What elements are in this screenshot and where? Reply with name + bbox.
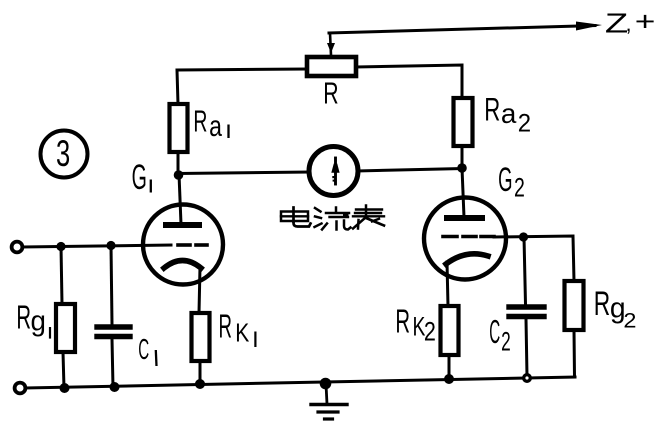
wire C1 top lead: [111, 245, 112, 324]
svg-text:3: 3: [56, 132, 70, 174]
wire RK2 bottom lead: [448, 355, 451, 379]
表: [356, 208, 382, 210]
wire G2 cathode lead: [447, 262, 448, 306]
wire Ra2 bottom: [461, 146, 464, 168]
svg-text:R: R: [193, 105, 207, 138]
电: [281, 212, 308, 222]
svg-text:K: K: [235, 319, 249, 348]
svg-text:R: R: [219, 308, 232, 345]
svg-text:2: 2: [623, 308, 636, 332]
label 电流表 ammeter caption hand-drawn glyphs: [281, 206, 384, 230]
wire C2 top lead: [524, 237, 526, 304]
capacitor C2 bottom plate: [509, 314, 544, 319]
svg-text:R: R: [484, 91, 500, 127]
wire anode rail left G1 to ammeter: [178, 172, 310, 174]
svg-text:R: R: [395, 302, 410, 339]
resistor Rg1: [56, 304, 75, 352]
node bottom rail RK1: [195, 379, 205, 389]
tube G2 cathode: [446, 254, 488, 264]
node bottom rail RK2: [444, 374, 454, 384]
resistor RK1: [192, 313, 210, 361]
node G2 grid: [519, 232, 528, 241]
svg-text:2: 2: [424, 317, 436, 347]
node bottom rail Rg1: [60, 383, 70, 393]
wire potentiometer wiper: [330, 33, 331, 55]
svg-text:R: R: [594, 286, 610, 324]
ammeter needle: [334, 158, 337, 184]
capacitor C1 top plate: [97, 324, 130, 329]
wire G1 plate lead: [179, 174, 181, 224]
svg-text:R: R: [323, 76, 338, 111]
node Z,+ arrowhead: [576, 22, 602, 31]
wire Rg1 bottom lead: [63, 352, 64, 388]
svg-text:g: g: [31, 305, 46, 336]
resistor RK2: [441, 306, 459, 355]
wire G2 plate lead: [462, 168, 464, 217]
wiper arrowhead: [327, 43, 335, 53]
node G1 anode: [174, 170, 184, 180]
svg-text:,: ,: [626, 11, 632, 36]
tube G1 cathode: [164, 261, 201, 269]
wire Rg1 top lead: [61, 246, 62, 304]
svg-text:a: a: [501, 98, 517, 129]
potentiometer R: [307, 57, 356, 76]
wire C1 bottom lead: [112, 339, 113, 387]
tube G1 envelope: [143, 205, 223, 285]
wire bottom rail: [25, 377, 575, 388]
tube G2 grid dashes: [443, 235, 457, 239]
svg-text:C: C: [489, 315, 500, 351]
tube G1 grid dashes: [178, 243, 190, 247]
流: [315, 208, 321, 212]
node G2 anode: [457, 163, 467, 173]
tube G2 envelope: [424, 198, 506, 280]
node grid rail dot 1: [56, 242, 65, 251]
node grid rail dot 2: [106, 241, 115, 250]
tube G2 plate: [447, 215, 482, 221]
svg-text:G: G: [498, 160, 512, 199]
wire top rail to output Z,+: [329, 26, 595, 34]
wire C2 bottom lead: [526, 319, 527, 376]
ammeter body: [309, 147, 358, 196]
svg-text:2: 2: [514, 172, 525, 202]
tube G1 plate: [166, 222, 199, 228]
ground: [326, 384, 327, 404]
resistor Ra2: [454, 98, 473, 146]
capacitor C2 top plate: [509, 304, 544, 309]
wire Ra1 bottom: [177, 152, 180, 174]
wire G2 grid lead to Rg2: [494, 236, 574, 281]
capacitor C1 bottom plate: [97, 334, 130, 339]
wire pot left to Ra1 top: [177, 69, 307, 104]
figure number 3 circle: [41, 131, 88, 178]
wire G1 grid lead: [22, 245, 171, 247]
wire Rg2 bottom lead: [573, 330, 577, 377]
svg-text:a: a: [209, 109, 222, 142]
resistor Ra1: [170, 104, 188, 152]
svg-text:C: C: [138, 333, 149, 365]
wire G1 cathode lead: [199, 267, 200, 313]
node bottom rail C2 pinhole dot: [522, 373, 532, 383]
wire anode rail right ammeter to G2: [357, 169, 462, 172]
svg-text:R: R: [16, 298, 31, 335]
svg-text:2: 2: [518, 110, 531, 138]
input terminal bottom: [15, 383, 26, 394]
wire RK1 bottom lead: [199, 361, 202, 384]
node bottom rail ground: [320, 378, 332, 390]
input terminal top: [12, 242, 23, 253]
wire pot right to Ra2 top: [356, 65, 462, 98]
svg-text:+: +: [635, 7, 656, 37]
node bottom rail C1: [110, 382, 120, 392]
svg-text:G: G: [132, 158, 147, 197]
resistor Rg2: [565, 281, 584, 330]
svg-text:2: 2: [501, 325, 511, 356]
